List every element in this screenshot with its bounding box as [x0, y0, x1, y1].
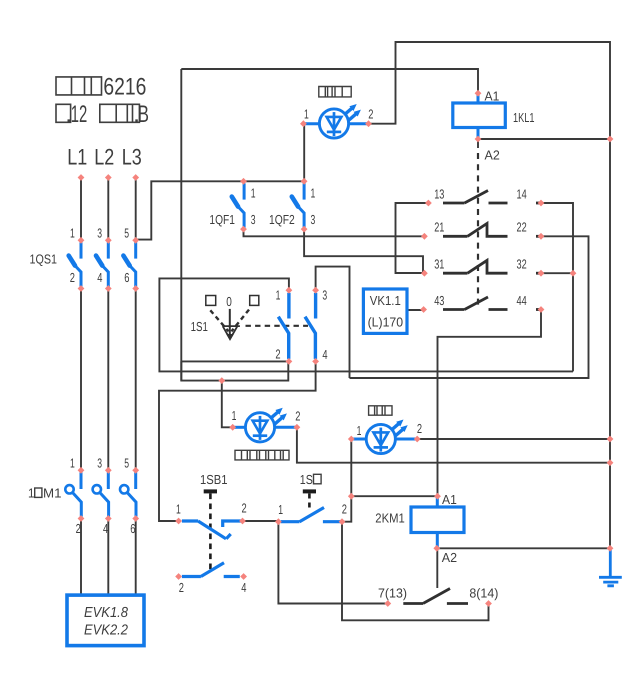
pin 1M1-4 — [105, 515, 112, 522]
mechanical link 1KL1 armature dashed — [477, 153, 479, 309]
pin 1QS1-3 — [105, 237, 112, 244]
wire contact 13 left to contact 31 left — [396, 203, 429, 273]
label tofu above lamp1 — [319, 87, 351, 97]
label tofu above lamp2 — [369, 406, 392, 415]
wire 1M1 pole3 to EVK box — [135, 519, 137, 596]
wire L1 supply down — [80, 178, 82, 241]
junction bus lamp2 — [607, 436, 614, 443]
pin 1QF1-1 — [240, 178, 247, 185]
svg-text:B: B — [138, 101, 149, 128]
contact 1KL1 13-14 NO — [443, 191, 508, 204]
wire stub contact 44 — [536, 308, 541, 311]
wire contact 31 right to junction — [541, 272, 573, 274]
wire 1M1 pole1 to EVK box — [80, 519, 82, 596]
pin lamp2-1 — [348, 436, 355, 443]
pin 1SB1-4 — [240, 573, 247, 580]
contact 1KL1 43-44 NO — [443, 297, 508, 310]
wire 1S1 terminal 3 up over — [316, 267, 350, 378]
pin contact 32 — [538, 270, 545, 277]
wire L3 tap to 1QF1 and 1QF2 tops — [136, 181, 305, 239]
svg-text:A2: A2 — [485, 148, 500, 163]
switch 1S1 pole 3-4 — [305, 293, 316, 359]
pin 1M1-1 — [78, 467, 85, 474]
svg-text:1: 1 — [70, 455, 75, 470]
svg-text:5: 5 — [124, 455, 129, 470]
svg-text:4: 4 — [322, 347, 327, 362]
wire 1QF1 bottom to contact 21 — [244, 229, 425, 236]
svg-text:1: 1 — [232, 408, 237, 423]
contact 1KL1 31-32 NC — [443, 260, 508, 273]
wire lamp3 terminal 2 to right bus — [297, 427, 610, 462]
pin 1QF2-1 — [301, 178, 308, 185]
wire 1KL1 A2 to right bus — [478, 138, 610, 140]
label tofu box in 1S_ name — [314, 474, 322, 484]
pushbutton 1S_ contact NO — [281, 508, 342, 522]
sensor box VK1.1 — [363, 289, 407, 333]
coil 2KM1 stubs — [436, 498, 439, 548]
wire L3 supply down — [135, 178, 137, 241]
breaker 1QF1 pole — [232, 183, 244, 228]
node L2 — [105, 174, 112, 181]
device box EVK — [67, 595, 144, 646]
pin contact 31 — [421, 270, 428, 277]
pin lamp2-2 — [414, 436, 421, 443]
svg-text:43: 43 — [434, 293, 444, 308]
pin contact 43 — [420, 306, 427, 313]
label tofu dots line2 — [68, 119, 138, 121]
wire contact 13 right down right bus-left — [541, 203, 573, 371]
pin 1M1-2 — [78, 515, 85, 522]
svg-text:1: 1 — [304, 106, 309, 121]
svg-text:1: 1 — [176, 501, 181, 516]
lamp HL1 — [319, 102, 363, 138]
svg-text:2: 2 — [368, 106, 373, 121]
disconnector 1QS1 pole 3 — [123, 242, 135, 286]
pin contact 14 — [538, 200, 545, 207]
pin contact 13 — [425, 200, 432, 207]
wire from x181 down left side — [180, 69, 182, 381]
pin 1KL1-A2 — [475, 136, 482, 143]
coil 1KL1 stubs — [477, 95, 480, 138]
wire 1KL1 A2 stub down — [477, 140, 479, 148]
wire lamp1 output up and across top to right bus — [369, 42, 611, 548]
svg-text:22: 22 — [517, 220, 527, 235]
wire 2KM1 A2 to right bus ground — [437, 547, 610, 549]
contact 1KL1 21-22 NC — [443, 224, 508, 237]
wire 1SB1 right to 1S-button left — [243, 520, 279, 522]
pin 1QS1-1 — [78, 237, 85, 244]
pin 1SB1-2b — [175, 573, 182, 580]
wire top feed from vertical x181 to 1KL1 A1 — [181, 69, 478, 91]
junction bus A2 — [607, 136, 614, 143]
wire 2KM1 A2 down to contact 7-13 — [436, 548, 438, 588]
svg-text:14: 14 — [517, 186, 527, 201]
pin 1QF1-3 — [240, 226, 247, 233]
wire contact 21 right down to 1S1 terminal 3 path — [350, 236, 589, 378]
svg-text:3: 3 — [311, 212, 316, 227]
svg-text:3: 3 — [97, 455, 102, 470]
label tofu box in 1M1 name — [35, 488, 42, 497]
svg-text:7(13): 7(13) — [378, 586, 407, 601]
svg-text:1QS1: 1QS1 — [30, 252, 58, 267]
wire lamp2 terminal 2 to right bus — [417, 438, 610, 440]
wire L2 supply down — [107, 178, 109, 241]
pin 1KL1-A1 — [475, 90, 482, 97]
title line2 missing glyph boxes — [56, 104, 139, 122]
wire 1QF2 bottom to contact 31 — [304, 229, 423, 273]
pin 1S1-1 — [286, 287, 293, 294]
svg-text:1SB1: 1SB1 — [200, 472, 228, 487]
pin contact 22 — [538, 233, 545, 240]
svg-text:1: 1 — [251, 185, 256, 200]
pin 2KM1-A1 — [434, 493, 441, 500]
svg-text:21: 21 — [434, 220, 444, 235]
svg-text:44: 44 — [517, 293, 527, 308]
svg-text:A1: A1 — [485, 88, 500, 103]
lamp lead 1 left — [303, 122, 319, 125]
svg-text:(L)170: (L)170 — [368, 314, 404, 329]
label tofu below lamp3 — [235, 450, 289, 460]
pin contact 8(14) — [485, 600, 492, 607]
svg-text:1S1: 1S1 — [191, 319, 208, 334]
wire stub contact 22 — [536, 235, 541, 238]
svg-text:3: 3 — [97, 225, 102, 240]
contactor contact 1M1 pole 2 — [93, 472, 109, 516]
wire stub contact 14 — [536, 202, 541, 205]
pin 1QF2-3 — [301, 226, 308, 233]
wire A1 node to 2KM1 A1 — [351, 495, 437, 497]
svg-text:A1: A1 — [442, 492, 457, 507]
svg-text:0: 0 — [226, 294, 232, 309]
disconnector 1QS1 pole 1 — [69, 242, 81, 286]
svg-text:8(14): 8(14) — [469, 586, 498, 601]
contactor coil 2KM1 — [411, 507, 464, 533]
lamp lead 3 right — [275, 426, 297, 429]
svg-text:VK1.1: VK1.1 — [370, 293, 401, 308]
svg-text:5: 5 — [124, 225, 129, 240]
svg-text:EVK2.2: EVK2.2 — [84, 623, 128, 639]
svg-text:L3: L3 — [122, 145, 142, 170]
svg-text:3: 3 — [251, 212, 256, 227]
pin 1S_-2 — [339, 518, 346, 525]
svg-text:L2: L2 — [94, 145, 114, 170]
junction contact 32 right — [570, 270, 577, 277]
wire 1QS1 pole1 to 1M1 pole1 — [80, 289, 82, 471]
svg-text:2: 2 — [342, 501, 347, 516]
svg-text:A2: A2 — [442, 550, 457, 565]
pin 1M1-5 — [132, 467, 139, 474]
pin lamp3-1 — [229, 424, 236, 431]
title line1 missing glyph boxes — [56, 77, 102, 95]
node L3 — [132, 174, 139, 181]
pin 1QS1-4 — [105, 285, 112, 292]
wire 1M1 pole2 to EVK box — [107, 519, 109, 596]
relay coil 1KL1 — [453, 103, 506, 128]
wire 1S-button right terminal down to contact 8-14 — [342, 522, 489, 621]
contactor contact 1M1 pole 3 — [120, 472, 136, 516]
svg-text:2: 2 — [417, 421, 422, 436]
lamp lead 1 right — [349, 122, 369, 125]
lamp HL3 — [245, 405, 289, 441]
wire 1S1 terminal 4 down to 1SB1 — [159, 361, 316, 521]
svg-text:1: 1 — [311, 185, 316, 200]
pin 1QS1-2 — [78, 285, 85, 292]
svg-text:EVK1.8: EVK1.8 — [84, 605, 128, 621]
lamp HL2 — [366, 417, 410, 453]
svg-text:4: 4 — [97, 270, 102, 285]
pin lamp1-1 — [300, 120, 307, 127]
wire lamp2 terminal 1 down to A1 node — [342, 439, 351, 522]
pin lamp1-2 — [365, 120, 372, 127]
svg-text:1: 1 — [28, 485, 35, 500]
svg-text:1: 1 — [70, 225, 75, 240]
pin 1QS1-5 — [132, 237, 139, 244]
svg-text:1S: 1S — [300, 472, 313, 487]
svg-text:1: 1 — [357, 423, 362, 438]
svg-text:1KL1: 1KL1 — [513, 110, 535, 125]
svg-text:6: 6 — [130, 521, 135, 536]
junction bus ground — [607, 545, 614, 552]
pin 2KM1-A2 — [433, 545, 440, 552]
pin 1QS1-6 — [132, 285, 139, 292]
pin 1S1-4 — [312, 358, 319, 365]
svg-text:13: 13 — [434, 186, 444, 201]
lamp lead 2 left — [351, 438, 366, 441]
svg-text:12: 12 — [71, 101, 88, 128]
pin 1S1-2 — [286, 358, 293, 365]
contactor contact 1M1 pole 1 — [65, 472, 81, 516]
svg-text:6: 6 — [124, 270, 129, 285]
svg-text:1: 1 — [278, 502, 283, 517]
svg-text:2: 2 — [70, 270, 75, 285]
svg-text:3: 3 — [322, 288, 327, 303]
node L1 — [78, 174, 85, 181]
svg-text:L1: L1 — [67, 145, 87, 170]
pin 1S1-3 — [312, 287, 319, 294]
svg-text:2: 2 — [275, 347, 280, 362]
svg-text:M1: M1 — [43, 485, 62, 500]
svg-text:4: 4 — [103, 521, 108, 536]
wire loop junction down to lamp3 terminal 1 — [222, 381, 233, 428]
svg-text:1QF2: 1QF2 — [269, 212, 295, 227]
svg-text:4: 4 — [241, 580, 246, 595]
selector 1S1 symbol — [206, 296, 308, 340]
breaker 1QF2 pole — [292, 183, 304, 228]
svg-text:2: 2 — [179, 580, 184, 595]
pushbutton 1SB1 actuator dashed — [204, 491, 217, 571]
junction lamp3 tap — [218, 377, 225, 384]
svg-text:2: 2 — [242, 500, 247, 515]
wire VK1.1 sensor to contact 43 — [407, 309, 424, 311]
pin 1SB1-2 — [239, 518, 246, 525]
junction bus lamp3 — [607, 459, 614, 466]
switch 1S1 pole 1-2 — [278, 293, 289, 359]
wire contact 44 down to 2KM1 A1 — [438, 310, 542, 497]
svg-text:31: 31 — [434, 257, 444, 272]
pin 1S_-1 — [275, 518, 282, 525]
wire stub contact 32 — [536, 272, 541, 275]
svg-text:2KM1: 2KM1 — [375, 511, 405, 526]
svg-text:2: 2 — [76, 521, 81, 536]
svg-text:1QF1: 1QF1 — [209, 212, 235, 227]
pin 1M1-3 — [105, 467, 112, 474]
pin 1SB1-1 — [175, 518, 182, 525]
wire lamp1 terminal1 down to 1QF junction — [303, 124, 305, 182]
svg-text:6216: 6216 — [103, 74, 146, 101]
pushbutton 1SB1 contact 1-2 NC — [182, 521, 242, 539]
wire 1QS1 pole2 to 1M1 pole2 — [107, 289, 109, 471]
lamp lead 3 left — [233, 426, 246, 429]
svg-text:1: 1 — [276, 288, 281, 303]
pushbutton 1SB1 contact 2-4 NO — [182, 563, 240, 577]
ground symbol — [599, 550, 622, 586]
pin contact 7(13) — [384, 600, 391, 607]
pin lamp3-2 — [294, 424, 301, 431]
svg-text:2: 2 — [295, 408, 300, 423]
contact 2KM1 7(13)-8(14) NO — [403, 589, 468, 604]
junction A1 node — [348, 493, 355, 500]
svg-text:32: 32 — [517, 257, 527, 272]
pin 1M1-6 — [132, 515, 139, 522]
pin contact 21 — [421, 233, 428, 240]
pin contact 44 — [538, 306, 545, 313]
disconnector 1QS1 pole 2 — [96, 242, 108, 286]
wire long return contact right side to 1S1 terminal 1 — [159, 278, 573, 371]
wire 1QS1 pole3 to 1M1 pole3 — [135, 289, 137, 471]
lamp lead 2 right — [395, 438, 417, 441]
pushbutton 1S_ actuator dashed — [303, 491, 316, 509]
wire 1S-button left terminal down to contact 7-13 — [278, 522, 387, 604]
wire 1S1 terminal 2 loop — [181, 361, 288, 380]
